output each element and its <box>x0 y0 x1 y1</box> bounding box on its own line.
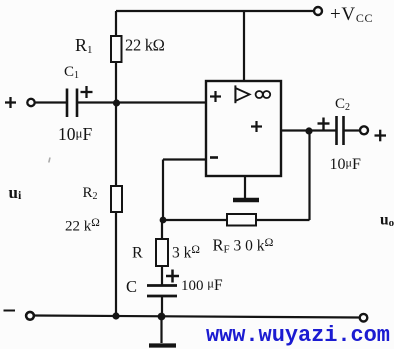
polarity + of C1 <box>81 91 93 93</box>
resistor R1 <box>111 36 122 62</box>
wire to RF <box>163 219 228 221</box>
wire junction to R <box>161 220 163 239</box>
label - input <box>4 310 16 312</box>
wire feedback vertical <box>162 160 164 222</box>
wire op-amp inverting input <box>163 158 206 160</box>
terminal output - <box>360 314 368 322</box>
wire C to bottom rail <box>161 296 163 316</box>
op-amp - input sign <box>210 156 218 159</box>
svg-text:10μF: 10μF <box>58 124 92 144</box>
wire top rail <box>116 10 314 12</box>
svg-text:22 kΩ: 22 kΩ <box>125 36 165 55</box>
capacitor C <box>147 284 177 287</box>
capacitor C2 <box>335 116 338 145</box>
terminal output + <box>360 126 368 134</box>
polarity + of C2 <box>318 122 330 124</box>
wire op-amp output <box>281 129 337 131</box>
wire Vcc to op-amp <box>243 11 245 81</box>
op-amp U1 box <box>206 81 281 176</box>
node input junction <box>113 99 120 106</box>
wire R1 to node <box>115 62 117 103</box>
stray scan mark <box>49 158 50 163</box>
wire C1 to op-amp + input <box>77 101 206 103</box>
wire C2 to output terminal <box>344 129 361 131</box>
op-amp infinity symbol <box>256 91 263 98</box>
svg-text:RF 3 0 kΩ: RF 3 0 kΩ <box>213 235 274 256</box>
wire left rail top <box>115 11 117 37</box>
label + input <box>5 101 16 103</box>
svg-text:100 μF: 100 μF <box>181 277 223 295</box>
ground (op-amp) <box>244 176 246 199</box>
resistor R2 <box>111 186 122 212</box>
node C bottom junction <box>158 313 166 321</box>
wire R to C <box>161 266 163 285</box>
label + output <box>375 134 387 136</box>
node feedback junction <box>160 217 167 224</box>
svg-text:10μF: 10μF <box>330 156 361 174</box>
resistor RF <box>227 214 256 226</box>
polarity + of C <box>166 275 179 278</box>
op-amp triangle symbol <box>234 85 236 103</box>
svg-text:www.wuyazi.com: www.wuyazi.com <box>206 323 390 348</box>
terminal input - <box>26 312 34 320</box>
op-amp + input sign <box>210 95 221 97</box>
wire bottom rail <box>34 316 360 318</box>
wire RF to output <box>257 219 310 221</box>
ground (bottom) <box>160 316 162 343</box>
capacitor C1 <box>66 89 69 118</box>
op-amp output + sign <box>251 125 262 127</box>
wire input to C1 <box>35 101 67 103</box>
resistor R <box>156 239 168 266</box>
svg-text:C: C <box>126 277 137 296</box>
node R2 bottom junction <box>112 312 119 319</box>
wire node to R2 <box>115 103 117 186</box>
wire R2 to bottom rail <box>115 212 117 316</box>
node output junction <box>305 127 312 134</box>
terminal input + <box>27 99 34 106</box>
terminal +Vcc <box>314 7 322 15</box>
svg-text:R: R <box>132 245 143 262</box>
